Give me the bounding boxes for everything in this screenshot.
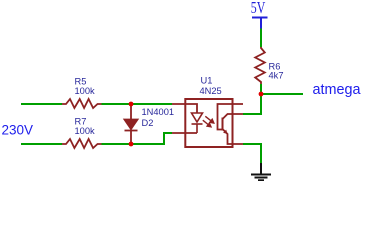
diode D2 1N4001 <box>125 104 138 144</box>
svg-text:100k: 100k <box>75 126 96 136</box>
power symbol 5V <box>251 0 268 28</box>
svg-text:4k7: 4k7 <box>269 70 284 80</box>
wire R6 to junction <box>260 84 262 94</box>
wire top-left net 230V <box>21 103 62 105</box>
wire bottom mid with jog up to opto pin2 <box>102 133 173 144</box>
wire collector to junction <box>243 94 261 114</box>
resistor R6 (vertical) <box>255 47 265 84</box>
svg-text:D2: D2 <box>142 118 154 128</box>
svg-text:1N4001: 1N4001 <box>142 107 175 117</box>
resistor R5 <box>62 99 102 108</box>
svg-text:5V: 5V <box>251 0 266 17</box>
svg-text:4N25: 4N25 <box>200 86 222 96</box>
LED inside U1 <box>192 113 203 133</box>
pin 1 anode lead <box>172 104 197 113</box>
svg-text:230V: 230V <box>2 122 34 137</box>
wire bottom-left net 230V <box>21 143 62 145</box>
collector lead to pin 5 <box>223 114 244 119</box>
junction dot (R6 / collector / atmega) <box>259 92 264 97</box>
pin 2 cathode lead <box>172 132 197 134</box>
wire emitter to ground <box>243 144 261 163</box>
ground <box>251 163 271 180</box>
svg-text:atmega: atmega <box>313 82 362 98</box>
base lead to pin 6 <box>218 104 244 130</box>
light arrow 1 <box>205 116 214 123</box>
svg-text:R5: R5 <box>75 77 87 87</box>
svg-text:100k: 100k <box>75 86 96 96</box>
optocoupler U1 4N25 box <box>185 99 232 147</box>
wire junction to atmega <box>261 93 303 95</box>
wire 5V to R6 <box>260 29 262 48</box>
emitter lead with arrow to pin 4 <box>223 129 244 144</box>
svg-text:U1: U1 <box>201 76 213 86</box>
transistor Q inside U1: base bar <box>222 118 224 131</box>
junction dot (bottom wire / D2) <box>129 142 134 147</box>
light arrow 2 <box>203 120 211 127</box>
junction dot (top wire / D2) <box>129 102 134 107</box>
wire top mid (R5 to opto pin1) <box>102 103 173 105</box>
resistor R7 <box>62 139 102 148</box>
